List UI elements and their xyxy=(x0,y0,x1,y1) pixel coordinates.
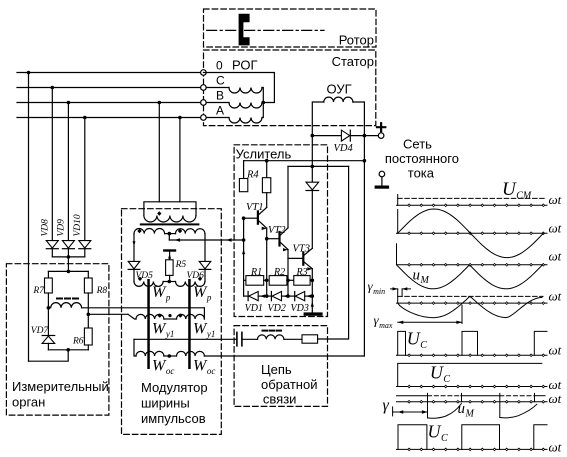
plot 8: U_C output pulse train xyxy=(398,425,427,450)
wire: bus to bridge top xyxy=(67,257,69,272)
amplifier block (Услитель) dashed box xyxy=(234,145,327,317)
resistor R2 xyxy=(269,276,287,286)
svg-text:ОУГ: ОУГ xyxy=(327,82,352,97)
winding W_oc left xyxy=(134,339,136,356)
svg-text:R8: R8 xyxy=(96,286,108,296)
wire: VT3 emitter to ground xyxy=(311,269,313,313)
modulator block (Модулятор ширины импульсов) dashed box xyxy=(122,209,222,435)
svg-text:ωt: ωt xyxy=(549,391,562,406)
svg-text:обратной: обратной xyxy=(261,377,317,392)
svg-text:ωt: ωt xyxy=(549,377,562,392)
terminal 0 xyxy=(201,70,207,76)
feedback block (Цепь обратной связи) dashed box xyxy=(234,326,327,407)
terminal C xyxy=(201,85,207,91)
generator winding РОГ phase A xyxy=(229,118,262,124)
winding W_p left xyxy=(134,282,163,287)
svg-text:Услитель: Услитель xyxy=(236,147,292,162)
plus sign xyxy=(377,123,385,131)
svg-text:R7: R7 xyxy=(32,286,45,296)
plot 6: U_C maximal pulse xyxy=(398,363,542,386)
transformer winding (measuring organ) xyxy=(51,303,82,308)
diode VD2 xyxy=(267,295,272,297)
wire: feedback return riser xyxy=(318,166,349,339)
resistor R4 xyxy=(243,161,245,179)
svg-text:0: 0 xyxy=(216,59,223,73)
terminal B xyxy=(201,100,207,106)
ticks xyxy=(427,393,429,418)
node: OUG left xyxy=(311,134,315,138)
diode VD7 xyxy=(47,308,49,336)
svg-text:A: A xyxy=(216,104,224,118)
wire: W_y1 bottom to capacitor xyxy=(134,338,237,340)
svg-text:VD9: VD9 xyxy=(57,219,67,237)
winding W_y1 left xyxy=(128,314,136,319)
node: OUG right xyxy=(363,134,367,138)
svg-text:ширины: ширины xyxy=(141,396,190,411)
measuring organ block (Измерительный орган) dashed box xyxy=(6,264,109,415)
capacitor (feedback) xyxy=(236,332,238,345)
svg-text:VD3: VD3 xyxy=(291,303,309,314)
diode VD8 xyxy=(46,241,58,249)
terminal - of DC network xyxy=(379,171,385,177)
wire: OUG left leg down to amplifier rail xyxy=(311,136,313,167)
diode VD3 xyxy=(288,295,295,297)
svg-text:VT2: VT2 xyxy=(268,225,286,236)
wire: modulator output to amplifier xyxy=(169,239,243,241)
svg-text:импульсов: импульсов xyxy=(141,411,206,426)
wire: phase line xyxy=(17,102,203,104)
wire: phase B drop to modulator xyxy=(158,103,160,202)
svg-text:ωt: ωt xyxy=(549,192,562,207)
wire: C coil end to star point xyxy=(206,88,263,103)
plot 7: U_C level with u_M segments xyxy=(397,395,428,397)
rotor block (Ротор) dashed box xyxy=(204,9,377,47)
svg-text:R1: R1 xyxy=(250,267,262,278)
wire: phase C drop to VD8 xyxy=(51,88,53,241)
plot 5: U_C pulse train xyxy=(398,331,406,355)
svg-text:Сеть: Сеть xyxy=(403,137,432,152)
wire: phase line xyxy=(17,72,203,74)
transformer secondary winding xyxy=(134,229,165,234)
svg-text:R6: R6 xyxy=(72,336,84,346)
wire: amplifier top rail xyxy=(244,160,365,162)
wire: R4 rail to modulator line xyxy=(243,218,245,296)
diode (amplifier top right, pointing down) xyxy=(311,166,313,182)
svg-text:VD7: VD7 xyxy=(31,326,50,336)
u_M arc 1 xyxy=(428,404,462,419)
u_M arc 2 xyxy=(500,404,537,418)
svg-text:B: B xyxy=(216,89,224,103)
svg-text:VD2: VD2 xyxy=(268,303,286,314)
resistor (feedback) xyxy=(302,335,318,343)
wire: phase B drop to VD9 xyxy=(67,103,69,241)
winding W_y1 right xyxy=(164,318,177,320)
wire: winding output to modulator (upper) xyxy=(82,307,205,309)
resistor R3 xyxy=(288,279,294,281)
wire: bridge bottom xyxy=(48,349,88,351)
resistor R6 xyxy=(84,328,92,345)
svg-text:VD8: VD8 xyxy=(41,219,51,237)
wire: phase A drop to modulator xyxy=(179,118,181,202)
wire: +rail down to W_oc line xyxy=(363,136,365,356)
rotor commutator bracket xyxy=(239,14,250,46)
svg-text:R5: R5 xyxy=(175,260,187,270)
winding W_oc right xyxy=(164,355,177,357)
gamma_max dimension xyxy=(461,305,463,323)
svg-text:γ: γ xyxy=(383,397,390,414)
svg-text:орган: орган xyxy=(12,395,45,410)
svg-text:ωt: ωt xyxy=(549,289,562,304)
wire: bridge bottom to neutral xyxy=(29,350,69,361)
svg-text:ωt: ωt xyxy=(549,249,562,264)
plot 4: u_M with U_CM threshold xyxy=(397,289,399,303)
node: secondary centre tap xyxy=(168,232,172,236)
ground (amplifier) xyxy=(304,312,323,315)
rotor shaft axis (dash-dot line) xyxy=(207,29,324,31)
wire: VT1 emitter chain down xyxy=(266,239,268,296)
terminal + of DC network xyxy=(378,133,384,139)
svg-text:постоянного: постоянного xyxy=(385,151,459,166)
svg-text:VT1: VT1 xyxy=(246,202,264,213)
svg-text:связи: связи xyxy=(263,392,297,407)
svg-text:VD10: VD10 xyxy=(73,214,83,236)
wire: 0 line to star point xyxy=(203,73,274,103)
resistor (VT1 collector load) xyxy=(266,161,268,178)
wire: DC output line xyxy=(312,135,341,137)
inductor (feedback) xyxy=(258,335,284,339)
svg-text:Измерительный: Измерительный xyxy=(12,379,109,394)
wire: diode bus xyxy=(52,256,85,258)
wire: W_oc to +rail riser xyxy=(204,355,364,357)
svg-text:Модулятор: Модулятор xyxy=(141,380,208,395)
plot 3: rectified wave u_M xyxy=(396,244,398,265)
transformer primary T-feed xyxy=(144,202,196,216)
transformer primary winding xyxy=(144,216,196,223)
wire: phase A drop to VD10 xyxy=(84,118,86,241)
diode VD4 xyxy=(341,130,349,141)
svg-text:тока: тока xyxy=(408,166,435,181)
magnetic cores (thick bars) xyxy=(147,279,150,369)
svg-text:VD4: VD4 xyxy=(334,143,354,154)
diode VD1 xyxy=(244,295,249,297)
diode VD5 xyxy=(133,234,135,262)
generator winding РОГ phase C xyxy=(229,88,262,94)
svg-text:VD5: VD5 xyxy=(136,271,154,281)
winding W_p right xyxy=(163,281,175,283)
svg-text:VD1: VD1 xyxy=(245,303,263,314)
generator winding РОГ phase B xyxy=(229,103,262,109)
wire: VT2 collector to second rail xyxy=(287,166,289,227)
chassis bar above R5 xyxy=(163,249,176,251)
terminal A xyxy=(201,115,207,121)
svg-text:Статор: Статор xyxy=(332,54,374,69)
svg-text:ωt: ωt xyxy=(549,343,562,358)
svg-text:R2: R2 xyxy=(273,267,285,278)
wire: star point junctions xyxy=(206,103,263,118)
wire: phase line xyxy=(17,87,203,89)
svg-text:ωt: ωt xyxy=(549,221,562,236)
wire: phase line xyxy=(17,117,203,119)
svg-text:R3: R3 xyxy=(296,267,308,278)
wire: bridge top xyxy=(48,270,88,272)
wire: neutral drop x=28.5 xyxy=(28,73,30,362)
diode VD6 xyxy=(204,234,206,262)
svg-text:РОГ: РОГ xyxy=(232,58,258,73)
diode VD9 xyxy=(62,241,74,249)
diode VD10 xyxy=(79,241,91,249)
svg-text:Ротор: Ротор xyxy=(339,33,374,48)
svg-text:C: C xyxy=(216,74,225,88)
resistor R1 xyxy=(244,279,246,281)
svg-text:Цепь: Цепь xyxy=(261,362,292,377)
stator block (Статор) dashed box xyxy=(204,50,376,126)
plot 2: supply sine wave xyxy=(397,210,399,234)
node: star point xyxy=(262,101,266,105)
svg-text:R4: R4 xyxy=(246,169,259,180)
transformer core xyxy=(140,223,200,225)
resistor R5 xyxy=(166,260,174,276)
resistor R7 xyxy=(47,271,49,278)
svg-text:ωt: ωt xyxy=(549,440,562,455)
wire: R8/R6 tap to modulator (lower) xyxy=(88,313,128,315)
wire: second rail xyxy=(288,165,349,167)
wire: centre tap to amplifier line xyxy=(168,234,170,240)
resistor R8 xyxy=(87,271,89,278)
